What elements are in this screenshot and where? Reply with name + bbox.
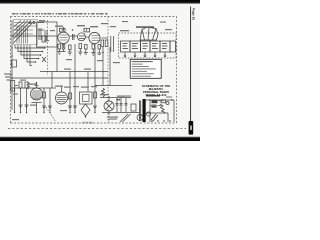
svg-text:Page 16: Page 16 [192, 8, 196, 20]
svg-text:HFM-902: HFM-902 [82, 121, 93, 124]
svg-text:+ +: + + [117, 99, 121, 102]
